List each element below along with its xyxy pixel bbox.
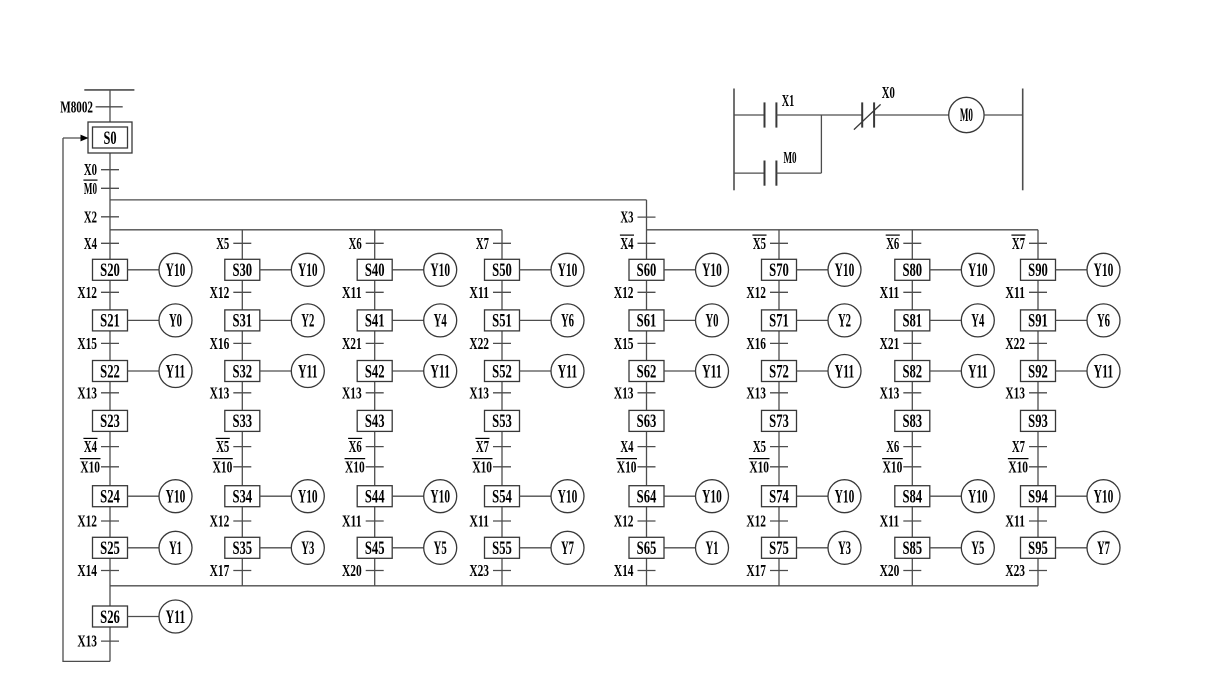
output coil Y3 of S35 [260,531,325,564]
step S82 [895,361,930,383]
svg-text:S65: S65 [637,538,657,559]
svg-text:Y10: Y10 [702,260,722,281]
svg-text:S40: S40 [365,260,385,281]
svg-text:X7: X7 [1012,234,1025,253]
output coil Y5 of S45 [392,531,457,564]
svg-text:X23: X23 [1005,561,1025,580]
svg-text:M0: M0 [960,105,973,126]
svg-text:X6: X6 [349,437,362,456]
svg-text:S31: S31 [232,311,252,332]
svg-text:X11: X11 [880,512,900,531]
wire: coil to right rail [984,114,1023,116]
svg-text:X10: X10 [617,457,637,476]
transition /X6 [348,437,384,456]
transition X14 [614,561,656,580]
svg-text:Y3: Y3 [838,538,851,559]
output coil Y10 of S74 [797,480,862,513]
transition X13 [469,383,511,402]
output coil Y11 of S42 [392,355,457,388]
transition X7 [1012,437,1047,456]
svg-text:X2: X2 [84,207,97,226]
step S53 [485,410,520,432]
output coil Y10 of S24 [128,480,193,513]
transition X11 [342,283,384,302]
svg-text:X10: X10 [749,457,769,476]
wire: column 3 vertical [374,230,376,586]
svg-text:X11: X11 [342,283,362,302]
output coil Y11 of S92 [1056,355,1121,388]
step S81 [895,310,930,332]
svg-text:S35: S35 [232,538,252,559]
transition /X10 [80,457,119,476]
output coil Y1 of S65 [664,531,729,564]
output coil Y11 of S62 [664,355,729,388]
svg-text:S45: S45 [365,538,385,559]
svg-text:X10: X10 [80,457,100,476]
svg-text:S24: S24 [100,487,120,508]
svg-text:X3: X3 [620,208,633,227]
wire: ladder left rail [733,89,735,191]
wire: column 4 vertical [501,230,503,586]
step S52 [485,361,520,383]
svg-text:S83: S83 [902,411,922,432]
svg-text:X20: X20 [342,561,362,580]
step S23 [93,410,128,432]
svg-text:X11: X11 [1005,283,1025,302]
svg-text:X6: X6 [886,437,899,456]
svg-text:S22: S22 [100,361,120,382]
output coil Y1 of S25 [128,531,193,564]
output coil Y10 of S90 [1056,253,1121,286]
svg-text:X6: X6 [349,234,362,253]
transition M8002 [60,97,122,116]
step S26 [93,606,128,628]
svg-text:M0: M0 [84,179,97,198]
transition X21 [880,334,922,353]
transition X15 [614,334,656,353]
step S61 [629,310,664,332]
transition X6 [349,234,384,253]
transition X13 [77,632,119,651]
svg-text:S63: S63 [637,411,657,432]
wire: right divergence bus [647,229,1039,231]
svg-text:X11: X11 [342,512,362,531]
output coil Y4 of S81 [930,304,995,337]
transition X12 [614,512,656,531]
transition /X10 [749,457,788,476]
wire: column 6 vertical [778,230,780,586]
svg-text:S51: S51 [492,311,512,332]
svg-text:X5: X5 [753,437,766,456]
transition /X10 [882,457,921,476]
wire: rung 1 left segment [734,114,765,116]
transition X20 [342,561,384,580]
transition X16 [210,334,252,353]
svg-text:X10: X10 [345,457,365,476]
svg-text:X5: X5 [216,437,229,456]
output coil Y10 of S44 [392,480,457,513]
svg-text:Y10: Y10 [835,487,855,508]
transition X13 [746,383,788,402]
coil M0 [949,97,984,132]
step S94 [1021,486,1056,508]
svg-text:X11: X11 [1005,512,1025,531]
svg-text:Y5: Y5 [971,538,984,559]
step S41 [357,310,392,332]
wire: first divergence bus [110,199,647,201]
transition /X10 [472,457,511,476]
step S84 [895,486,930,508]
svg-text:X10: X10 [1008,457,1028,476]
svg-text:S33: S33 [232,411,252,432]
contact M0 (NO, seal-in) [765,148,797,186]
svg-text:X21: X21 [880,334,900,353]
svg-text:Y7: Y7 [561,538,574,559]
transition /X4 [83,437,119,456]
transition X12 [77,283,119,302]
svg-text:X10: X10 [213,457,233,476]
svg-text:S60: S60 [637,260,657,281]
svg-text:S70: S70 [769,260,789,281]
svg-text:S72: S72 [769,361,789,382]
svg-text:X7: X7 [476,234,489,253]
output coil Y2 of S71 [797,304,862,337]
svg-text:X11: X11 [880,283,900,302]
step S62 [629,361,664,383]
step S80 [895,259,930,281]
wire: rung 1 right segment [874,114,949,116]
svg-text:S43: S43 [365,411,385,432]
svg-text:Y11: Y11 [702,361,722,382]
svg-text:X5: X5 [216,234,229,253]
transition X12 [77,512,119,531]
contact X1 (NO) [765,91,795,128]
svg-text:X6: X6 [886,234,899,253]
output coil Y10 of S70 [797,253,862,286]
svg-text:X12: X12 [77,283,97,302]
svg-text:S21: S21 [100,311,120,332]
transition X3 [620,208,655,227]
step S20 [93,259,128,281]
svg-text:Y10: Y10 [968,487,988,508]
svg-text:S74: S74 [769,487,789,508]
transition X12 [746,512,788,531]
output coil Y6 of S91 [1056,304,1121,337]
transition /X10 [345,457,384,476]
transition X4 [84,234,119,253]
svg-text:Y10: Y10 [558,260,578,281]
step S42 [357,361,392,383]
transition M0 (NC) [83,179,119,198]
svg-text:Y10: Y10 [558,487,578,508]
svg-text:X13: X13 [746,383,766,402]
step S22 [93,361,128,383]
svg-text:X11: X11 [469,512,489,531]
svg-text:S62: S62 [637,361,657,382]
svg-text:S81: S81 [902,311,922,332]
svg-text:Y10: Y10 [1094,487,1114,508]
output coil Y10 of S94 [1056,480,1121,513]
svg-text:X12: X12 [746,512,766,531]
svg-text:Y5: Y5 [434,538,447,559]
transition /X5 [752,234,788,253]
svg-text:S26: S26 [100,607,120,628]
output coil Y10 of S54 [520,480,585,513]
step S72 [762,361,797,383]
svg-text:Y0: Y0 [705,311,718,332]
svg-text:S95: S95 [1028,538,1048,559]
step S93 [1021,410,1056,432]
svg-text:X13: X13 [77,383,97,402]
transition X6 [886,437,921,456]
output coil Y11 of S32 [260,355,325,388]
transition X7 [476,234,511,253]
output coil Y10 of S84 [930,480,995,513]
transition X4 [620,437,655,456]
step S91 [1021,310,1056,332]
output coil Y3 of S75 [797,531,862,564]
svg-text:Y10: Y10 [835,260,855,281]
step S55 [485,537,520,559]
svg-text:Y10: Y10 [430,260,450,281]
transition X13 [880,383,922,402]
svg-text:Y11: Y11 [430,361,450,382]
output coil Y11 of S72 [797,355,862,388]
output coil Y10 of S20 [128,253,193,286]
svg-text:X12: X12 [614,512,634,531]
transition X12 [746,283,788,302]
wire: convergence bus [110,585,1038,587]
svg-text:X5: X5 [753,234,766,253]
svg-text:X10: X10 [472,457,492,476]
output coil Y7 of S55 [520,531,585,564]
svg-text:M8002: M8002 [60,97,93,116]
transition X11 [469,283,511,302]
svg-text:M0: M0 [783,148,796,167]
step S30 [225,259,260,281]
step S43 [357,410,392,432]
step S34 [225,486,260,508]
transition X12 [210,283,252,302]
transition X21 [342,334,384,353]
svg-text:S52: S52 [492,361,512,382]
wire: rung 2 left segment [734,172,765,174]
svg-text:S50: S50 [492,260,512,281]
transition X13 [77,383,119,402]
svg-text:Y10: Y10 [166,487,186,508]
svg-text:Y6: Y6 [1097,311,1110,332]
step S83 [895,410,930,432]
svg-text:X16: X16 [210,334,230,353]
svg-text:S61: S61 [637,311,657,332]
transition /X7 [1011,234,1047,253]
svg-text:X11: X11 [469,283,489,302]
svg-text:S25: S25 [100,538,120,559]
svg-text:Y6: Y6 [561,311,574,332]
transition X5 [216,234,251,253]
wire: column 7 vertical [911,230,913,586]
svg-text:X20: X20 [880,561,900,580]
output coil Y0 of S21 [128,304,193,337]
transition X17 [210,561,252,580]
step S32 [225,361,260,383]
transition X23 [1005,561,1047,580]
wire: ladder right rail [1022,89,1024,191]
svg-text:Y7: Y7 [1097,538,1110,559]
step S85 [895,537,930,559]
svg-text:X16: X16 [746,334,766,353]
output coil Y11 of S26 [128,600,193,633]
transition X22 [469,334,511,353]
wire: column 8 vertical [1037,230,1039,586]
svg-text:X12: X12 [210,283,230,302]
svg-text:S0: S0 [103,128,116,149]
output coil Y10 of S40 [392,253,457,286]
wire: column 5 vertical [646,200,648,586]
svg-text:Y11: Y11 [298,361,318,382]
transition X22 [1005,334,1047,353]
output coil Y11 of S82 [930,355,995,388]
svg-text:X7: X7 [1012,437,1025,456]
svg-text:S85: S85 [902,538,922,559]
svg-text:S41: S41 [365,311,385,332]
svg-text:Y4: Y4 [971,311,984,332]
transition X11 [1005,283,1047,302]
svg-text:X13: X13 [469,383,489,402]
svg-text:Y11: Y11 [835,361,855,382]
svg-text:X15: X15 [614,334,634,353]
svg-text:S91: S91 [1028,311,1048,332]
svg-text:Y10: Y10 [430,487,450,508]
transition /X4 [620,234,656,253]
transition /X10 [212,457,251,476]
transition /X7 [475,437,511,456]
transition X13 [614,383,656,402]
svg-text:Y1: Y1 [705,538,718,559]
svg-text:X13: X13 [210,383,230,402]
step S45 [357,537,392,559]
svg-text:X17: X17 [746,561,766,580]
transition X15 [77,334,119,353]
wire: seal-in branch to junction [776,115,821,173]
svg-text:S55: S55 [492,538,512,559]
step S24 [93,486,128,508]
transition X13 [1005,383,1047,402]
svg-text:Y10: Y10 [298,260,318,281]
svg-text:X10: X10 [883,457,903,476]
transition X12 [614,283,656,302]
wire: column 1 vertical [109,90,111,662]
output coil Y10 of S64 [664,480,729,513]
svg-text:Y11: Y11 [1094,361,1114,382]
contact X0 (NC) [854,83,895,130]
svg-text:X15: X15 [77,334,97,353]
step S74 [762,486,797,508]
svg-text:S44: S44 [365,487,385,508]
svg-text:S30: S30 [232,260,252,281]
svg-text:S73: S73 [769,411,789,432]
svg-text:Y10: Y10 [1094,260,1114,281]
svg-text:Y1: Y1 [169,538,182,559]
svg-text:X13: X13 [1005,383,1025,402]
transition X14 [77,561,119,580]
svg-text:X0: X0 [882,83,895,102]
svg-text:Y10: Y10 [702,487,722,508]
transition /X5 [216,437,252,456]
svg-text:Y11: Y11 [558,361,578,382]
transition X11 [342,512,384,531]
svg-text:X0: X0 [84,160,97,179]
svg-text:S93: S93 [1028,411,1048,432]
output coil Y10 of S50 [520,253,585,286]
output coil Y11 of S22 [128,355,193,388]
output coil Y4 of S41 [392,304,457,337]
svg-text:S90: S90 [1028,260,1048,281]
svg-text:S92: S92 [1028,361,1048,382]
step S65 [629,537,664,559]
step S95 [1021,537,1056,559]
output coil Y10 of S60 [664,253,729,286]
svg-text:X13: X13 [614,383,634,402]
svg-text:S71: S71 [769,311,789,332]
svg-text:X22: X22 [469,334,489,353]
svg-text:X4: X4 [620,234,633,253]
svg-text:X12: X12 [746,283,766,302]
svg-text:X21: X21 [342,334,362,353]
svg-text:Y10: Y10 [968,260,988,281]
output coil Y0 of S61 [664,304,729,337]
svg-text:S94: S94 [1028,487,1048,508]
transition X17 [746,561,788,580]
step S31 [225,310,260,332]
output coil Y5 of S85 [930,531,995,564]
svg-text:X13: X13 [342,383,362,402]
step S0 [88,122,132,153]
svg-text:Y11: Y11 [166,607,186,628]
transition X23 [469,561,511,580]
svg-text:Y10: Y10 [166,260,186,281]
step S21 [93,310,128,332]
svg-text:S84: S84 [902,487,922,508]
step S90 [1021,259,1056,281]
step S92 [1021,361,1056,383]
transition X11 [880,512,922,531]
wire: left divergence bus [110,229,502,231]
svg-text:X12: X12 [210,512,230,531]
svg-text:S82: S82 [902,361,922,382]
svg-text:X4: X4 [84,437,97,456]
transition X20 [880,561,922,580]
svg-text:X13: X13 [880,383,900,402]
svg-text:X4: X4 [84,234,97,253]
svg-text:S80: S80 [902,260,922,281]
svg-text:Y0: Y0 [169,311,182,332]
svg-text:S42: S42 [365,361,385,382]
step S40 [357,259,392,281]
svg-text:X23: X23 [469,561,489,580]
step S50 [485,259,520,281]
step S60 [629,259,664,281]
svg-text:Y11: Y11 [166,361,186,382]
svg-text:S34: S34 [232,487,252,508]
svg-text:X13: X13 [77,632,97,651]
svg-text:S20: S20 [100,260,120,281]
transition /X10 [616,457,655,476]
step S51 [485,310,520,332]
output coil Y10 of S30 [260,253,325,286]
step S44 [357,486,392,508]
svg-text:X22: X22 [1005,334,1025,353]
